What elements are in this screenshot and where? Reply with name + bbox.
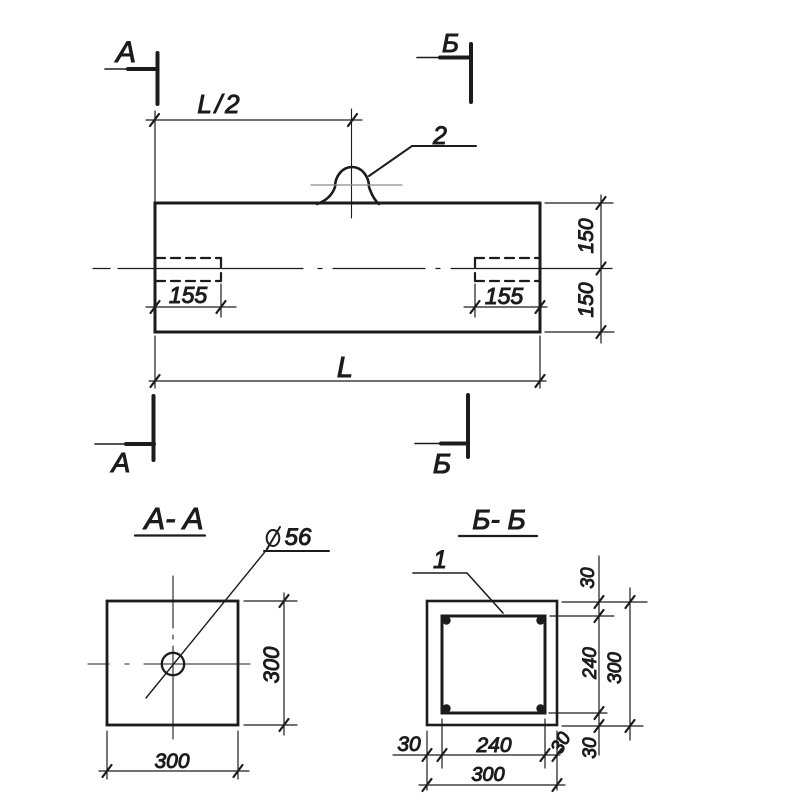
svg-text:L: L <box>337 352 353 384</box>
svg-text:A- A: A- A <box>142 501 203 536</box>
svg-text:Б- Б: Б- Б <box>472 504 526 535</box>
svg-text:30: 30 <box>578 567 599 589</box>
svg-text:A: A <box>110 447 131 478</box>
svg-text:Б: Б <box>433 448 451 479</box>
svg-text:300: 300 <box>605 652 626 684</box>
svg-text:150: 150 <box>575 282 598 317</box>
svg-text:155: 155 <box>485 283 524 309</box>
svg-text:2: 2 <box>432 122 447 150</box>
svg-text:155: 155 <box>169 282 208 308</box>
svg-text:A: A <box>114 36 136 69</box>
svg-text:Б: Б <box>442 28 459 58</box>
svg-text:300: 300 <box>259 646 284 683</box>
svg-text:L/2: L/2 <box>197 89 242 119</box>
svg-text:56: 56 <box>285 524 312 551</box>
svg-text:1: 1 <box>433 546 447 574</box>
svg-text:300: 300 <box>471 764 504 786</box>
svg-text:150: 150 <box>575 218 598 253</box>
svg-text:240: 240 <box>580 647 601 680</box>
svg-text:300: 300 <box>154 750 189 773</box>
svg-text:30: 30 <box>397 733 421 756</box>
svg-text:30: 30 <box>580 737 601 759</box>
svg-text:240: 240 <box>475 734 511 757</box>
